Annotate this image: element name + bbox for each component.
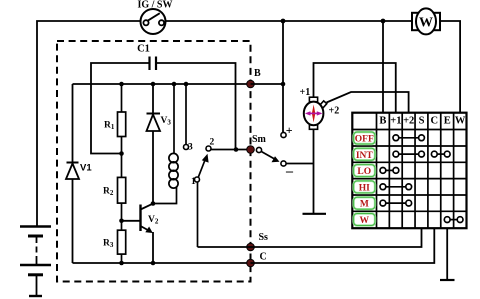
svg-text:Sm: Sm	[252, 134, 267, 145]
svg-text:W: W	[455, 116, 466, 127]
wire table E column to ground	[446, 228, 448, 280]
junction	[119, 151, 124, 156]
svg-text:1: 1	[191, 177, 196, 187]
wire node B to + branch	[251, 83, 284, 85]
contact links LO row	[380, 168, 399, 174]
node Sm	[247, 146, 255, 154]
contact links INT row	[393, 151, 450, 157]
field arrows magenta	[307, 112, 321, 114]
svg-text:–: –	[285, 164, 294, 179]
contact links HI row	[380, 184, 412, 190]
wire washer motor to table W column	[440, 21, 460, 113]
svg-text:W: W	[360, 216, 370, 226]
node Ss	[247, 243, 255, 251]
junction	[281, 19, 286, 24]
svg-text:S: S	[419, 116, 425, 127]
svg-text:C1: C1	[137, 44, 150, 55]
resistor R1	[118, 84, 126, 154]
svg-text:V1: V1	[80, 163, 92, 174]
switch IG/SW	[141, 9, 166, 34]
connector table	[352, 113, 466, 229]
capacitor C1	[91, 57, 236, 154]
wire bus to Sm + contact	[282, 21, 284, 132]
svg-text:V2: V2	[148, 215, 159, 226]
svg-text:R2: R2	[103, 187, 114, 198]
junction	[119, 219, 124, 224]
table header labels	[379, 116, 465, 127]
svg-text:C: C	[431, 116, 439, 127]
svg-text:3: 3	[188, 143, 193, 153]
wire top bus	[166, 20, 413, 22]
wire motor +1 to table	[314, 63, 396, 113]
svg-text:B: B	[254, 68, 261, 79]
svg-text:+2: +2	[329, 106, 340, 117]
wire contact1 down to Ss	[197, 182, 199, 247]
armature needle red	[312, 105, 315, 123]
svg-text:C: C	[260, 252, 267, 263]
mode label INT	[354, 148, 375, 161]
ground E	[440, 279, 455, 281]
diode V1	[66, 84, 79, 263]
wire ground rail bottom	[73, 262, 251, 264]
svg-text:M: M	[360, 200, 369, 210]
junction	[184, 82, 189, 87]
svg-text:OFF: OFF	[355, 135, 374, 145]
wire B column from bus	[382, 21, 384, 113]
junction	[234, 147, 239, 152]
ground motor	[303, 213, 327, 215]
svg-text:R1: R1	[104, 121, 115, 132]
junction	[151, 261, 156, 266]
svg-text:E: E	[444, 116, 451, 127]
diode V3	[147, 84, 161, 204]
svg-text:+2: +2	[403, 116, 414, 127]
svg-text:B: B	[379, 116, 386, 127]
battery GB	[20, 227, 51, 297]
contact links W row	[444, 217, 463, 223]
relay contact 2	[206, 146, 211, 151]
relay contact 3	[185, 84, 187, 144]
contact links M row	[380, 200, 412, 206]
svg-text:R3: R3	[103, 239, 114, 250]
svg-text:INT: INT	[356, 151, 374, 161]
svg-text:HI: HI	[359, 183, 370, 193]
svg-text:+1: +1	[390, 116, 401, 127]
svg-text:LO: LO	[357, 167, 371, 177]
mode label OFF	[354, 132, 375, 145]
junction	[381, 19, 386, 24]
junction	[151, 82, 156, 87]
mode label W	[354, 214, 375, 227]
junction	[119, 82, 124, 87]
wire Sm- to motor bottom	[286, 163, 313, 165]
node B	[247, 80, 255, 88]
wire motor bottom to ground	[313, 129, 315, 213]
dashed enclosure relay unit	[57, 41, 251, 282]
contact links OFF row	[393, 135, 424, 141]
resistor R2	[118, 154, 126, 221]
contact + of Sm	[281, 132, 286, 137]
resistor R3	[118, 221, 126, 263]
wiper motor	[304, 97, 327, 129]
relay coil	[153, 84, 178, 204]
junction	[172, 82, 177, 87]
svg-text:IG / SW: IG / SW	[137, 0, 172, 11]
svg-text:+1: +1	[300, 87, 311, 98]
wire table C column to C	[251, 228, 435, 263]
wire motor +2 to table	[327, 92, 409, 113]
mode label HI	[354, 181, 375, 194]
svg-text:W: W	[419, 16, 433, 31]
junction	[119, 261, 124, 266]
svg-text:2: 2	[210, 138, 215, 148]
transistor V2	[122, 204, 154, 263]
svg-text:+: +	[286, 123, 293, 137]
junction	[281, 82, 286, 87]
node C	[247, 259, 255, 267]
svg-text:V3: V3	[161, 116, 172, 127]
wire contact2 to Sm node	[211, 149, 251, 151]
washer motor W	[412, 8, 440, 34]
mode label LO	[354, 165, 375, 178]
svg-text:Ss: Ss	[259, 232, 269, 243]
wire supply bus inside box	[73, 83, 251, 85]
wire table S column to Ss	[198, 228, 422, 247]
mode label M	[354, 197, 375, 210]
relay contact 1 (moving arm)	[195, 177, 200, 182]
wire battery+ to IG/SW	[37, 21, 140, 226]
switch Sm	[256, 147, 261, 152]
junction	[151, 201, 156, 206]
